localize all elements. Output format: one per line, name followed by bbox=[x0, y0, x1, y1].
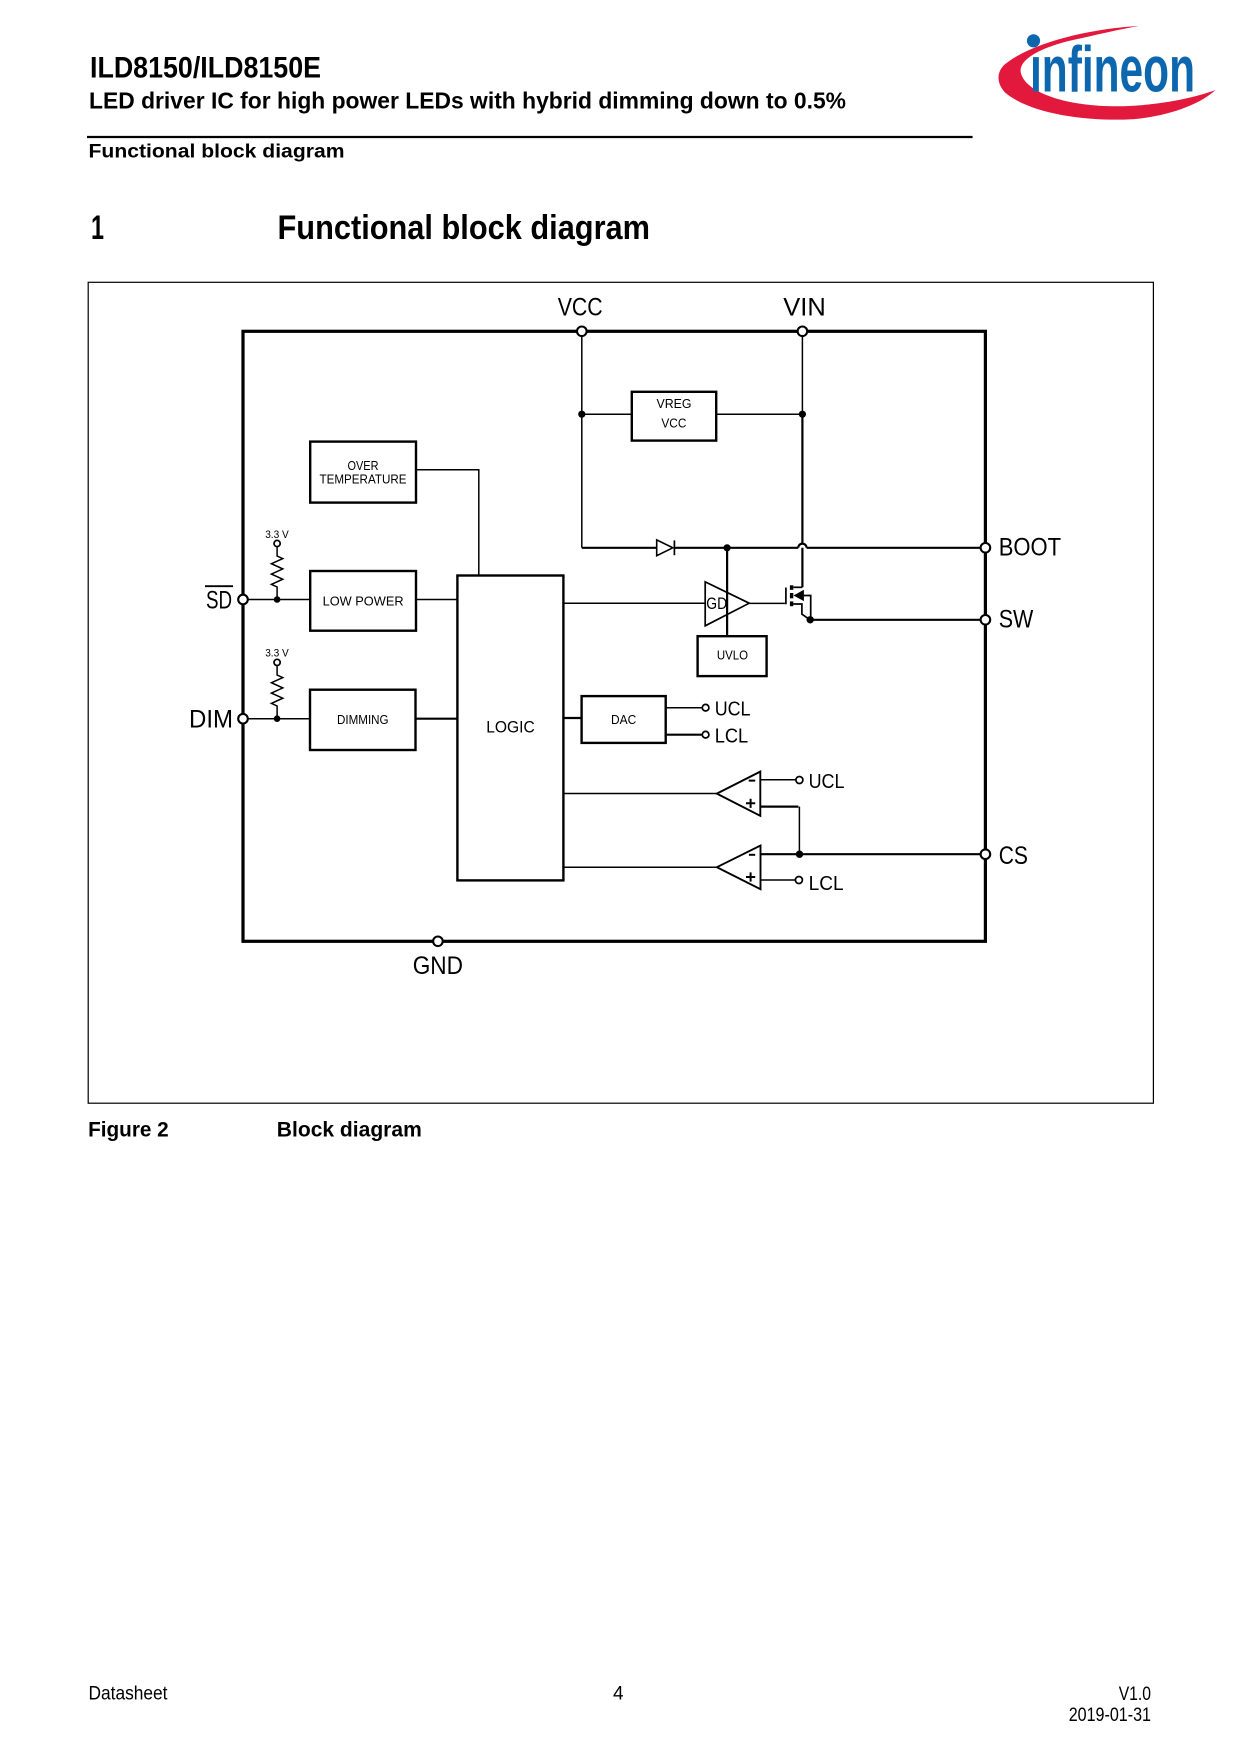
gate driver GD bbox=[705, 582, 749, 626]
wire LOGIC to GD bbox=[563, 602, 705, 604]
svg-text:UCL: UCL bbox=[809, 771, 845, 793]
wire DAC to LCL bbox=[666, 734, 702, 736]
wire LOGIC to DAC bbox=[563, 717, 581, 719]
svg-text:3.3 V: 3.3 V bbox=[265, 529, 289, 541]
svg-text:LCL: LCL bbox=[809, 873, 844, 895]
junction node DIM resistor bbox=[274, 715, 281, 722]
wire comparator1 output bbox=[563, 793, 716, 795]
figure caption bbox=[88, 1117, 422, 1141]
wire VIN drop to junction bbox=[801, 331, 803, 414]
page footer bbox=[89, 1684, 1152, 1727]
comparator U1 bbox=[717, 772, 761, 816]
wire VREG to VIN bbox=[716, 413, 802, 415]
pin VIN bbox=[798, 327, 808, 337]
pin GND bbox=[433, 937, 443, 947]
header rule bbox=[87, 136, 973, 138]
svg-text:LOGIC: LOGIC bbox=[486, 718, 535, 737]
block LOW POWER bbox=[310, 571, 416, 631]
wire comparator1 plus bbox=[760, 805, 798, 807]
svg-text:BOOT: BOOT bbox=[999, 534, 1061, 562]
junction node BOOT-GD bbox=[724, 544, 731, 551]
junction node source-SW bbox=[807, 616, 814, 623]
svg-text:TEMPERATURE: TEMPERATURE bbox=[320, 472, 407, 487]
svg-text:VREG: VREG bbox=[657, 396, 692, 411]
svg-text:4: 4 bbox=[613, 1684, 624, 1705]
wire VCC to VREG bbox=[582, 413, 632, 415]
section heading bbox=[91, 209, 650, 247]
wire SW row bbox=[810, 619, 985, 621]
svg-text:Functional block diagram: Functional block diagram bbox=[89, 141, 345, 163]
circuit diagram bbox=[189, 294, 1061, 980]
wire comparator2 plus to LCL bbox=[761, 879, 796, 881]
wire DIMMING to LOGIC bbox=[416, 718, 458, 720]
junction node VCC-VREG bbox=[578, 411, 585, 418]
transistor Q1 source lead bbox=[793, 604, 810, 620]
transistor Q1 gate bar bbox=[785, 588, 787, 605]
svg-text:VCC: VCC bbox=[661, 416, 686, 431]
wire BOOT node to UVLO through GD bbox=[726, 548, 728, 636]
transistor Q1 body lead bbox=[804, 596, 811, 620]
wire BOOT row left bbox=[582, 547, 657, 549]
comparator U1 minus bbox=[749, 780, 756, 782]
wire plus drop to CS node bbox=[798, 807, 800, 855]
svg-text:DIM: DIM bbox=[189, 706, 233, 734]
block DIMMING bbox=[310, 690, 416, 750]
wire GD to gate bbox=[749, 602, 785, 604]
svg-text:ILD8150/ILD8150E: ILD8150/ILD8150E bbox=[90, 52, 321, 85]
terminal LCL comparator bbox=[795, 877, 802, 884]
svg-text:3.3 V: 3.3 V bbox=[265, 647, 289, 659]
svg-text:Figure 2: Figure 2 bbox=[88, 1117, 169, 1141]
pin DIM bbox=[238, 714, 248, 724]
wire LOW POWER to LOGIC bbox=[416, 599, 457, 601]
terminal 3.3V R2 bbox=[274, 659, 280, 665]
svg-text:DAC: DAC bbox=[611, 712, 636, 727]
svg-text:1: 1 bbox=[91, 209, 104, 247]
block LOGIC bbox=[457, 576, 563, 881]
terminal UCL comparator bbox=[796, 777, 803, 784]
transistor Q1 drain lead bbox=[793, 586, 802, 588]
junction node VREG-VIN bbox=[799, 411, 806, 418]
figure frame bbox=[88, 282, 1153, 1103]
terminal UCL DAC bbox=[702, 704, 709, 711]
svg-text:UVLO: UVLO bbox=[717, 648, 748, 663]
document header bbox=[87, 52, 973, 163]
junction node SD resistor bbox=[274, 596, 281, 603]
svg-text:LED driver IC for high power L: LED driver IC for high power LEDs with h… bbox=[89, 88, 846, 114]
svg-text:LOW POWER: LOW POWER bbox=[323, 593, 404, 608]
block UVLO bbox=[698, 636, 767, 676]
svg-text:SD: SD bbox=[206, 587, 232, 615]
svg-text:SW: SW bbox=[999, 606, 1034, 634]
svg-text:CS: CS bbox=[999, 842, 1028, 870]
wire OVER TEMPERATURE to LOGIC bbox=[416, 470, 479, 576]
svg-text:GND: GND bbox=[413, 952, 463, 980]
pin SD bbox=[238, 595, 248, 605]
terminal 3.3V R1 bbox=[274, 540, 280, 546]
junction node CS bbox=[796, 851, 803, 858]
wire DAC to UCL bbox=[666, 707, 702, 709]
wire BOOT row with hop bbox=[675, 547, 799, 549]
svg-text:DIMMING: DIMMING bbox=[337, 712, 389, 727]
label SD overline bbox=[205, 585, 233, 587]
comparator U1 plus bbox=[746, 799, 755, 808]
terminal LCL DAC bbox=[702, 731, 709, 738]
comparator U2 minus bbox=[749, 854, 755, 856]
wire VCC drop bbox=[581, 331, 583, 548]
svg-text:VIN: VIN bbox=[783, 294, 826, 322]
block OVER TEMPERATURE bbox=[310, 442, 416, 503]
block VREG VCC bbox=[632, 392, 716, 441]
wire comparator1 minus to UCL bbox=[760, 779, 796, 781]
Infineon logo bbox=[998, 26, 1215, 120]
svg-text:Functional block diagram: Functional block diagram bbox=[278, 209, 651, 247]
svg-text:UCL: UCL bbox=[715, 699, 751, 721]
logo red swoosh bbox=[998, 26, 1215, 120]
svg-text:Datasheet: Datasheet bbox=[89, 1684, 169, 1705]
wire CS row bbox=[761, 853, 986, 855]
comparator U2 bbox=[717, 846, 761, 890]
svg-text:Block diagram: Block diagram bbox=[277, 1117, 422, 1141]
logo blue dot bbox=[1027, 34, 1040, 47]
svg-text:V1.0: V1.0 bbox=[1119, 1684, 1151, 1705]
resistor R2 pull-up DIM bbox=[271, 666, 282, 719]
comparator U2 plus bbox=[746, 872, 755, 881]
wire DIM input bbox=[243, 718, 310, 720]
transistor Q1 body diode arrow bbox=[794, 590, 804, 601]
IC boundary bbox=[243, 331, 985, 941]
svg-text:ınfineon: ınfineon bbox=[1030, 33, 1195, 106]
svg-text:2019-01-31: 2019-01-31 bbox=[1069, 1705, 1151, 1726]
transistor Q1 channel dashes bbox=[790, 585, 793, 606]
resistor R1 pull-up SD bbox=[271, 547, 282, 600]
svg-text:LCL: LCL bbox=[715, 726, 749, 748]
diode D1 bbox=[657, 540, 675, 556]
wire comparator2 output bbox=[563, 866, 716, 868]
pin VCC bbox=[577, 327, 587, 337]
pin BOOT bbox=[981, 543, 991, 553]
svg-text:GD: GD bbox=[706, 594, 727, 613]
wire VIN junction to MOSFET drain bbox=[801, 414, 803, 587]
block DAC bbox=[582, 696, 666, 743]
pin SW bbox=[981, 615, 991, 625]
wire SD input bbox=[243, 599, 310, 601]
svg-text:VCC: VCC bbox=[558, 294, 603, 322]
svg-text:OVER: OVER bbox=[348, 458, 379, 473]
pin CS bbox=[981, 849, 991, 859]
